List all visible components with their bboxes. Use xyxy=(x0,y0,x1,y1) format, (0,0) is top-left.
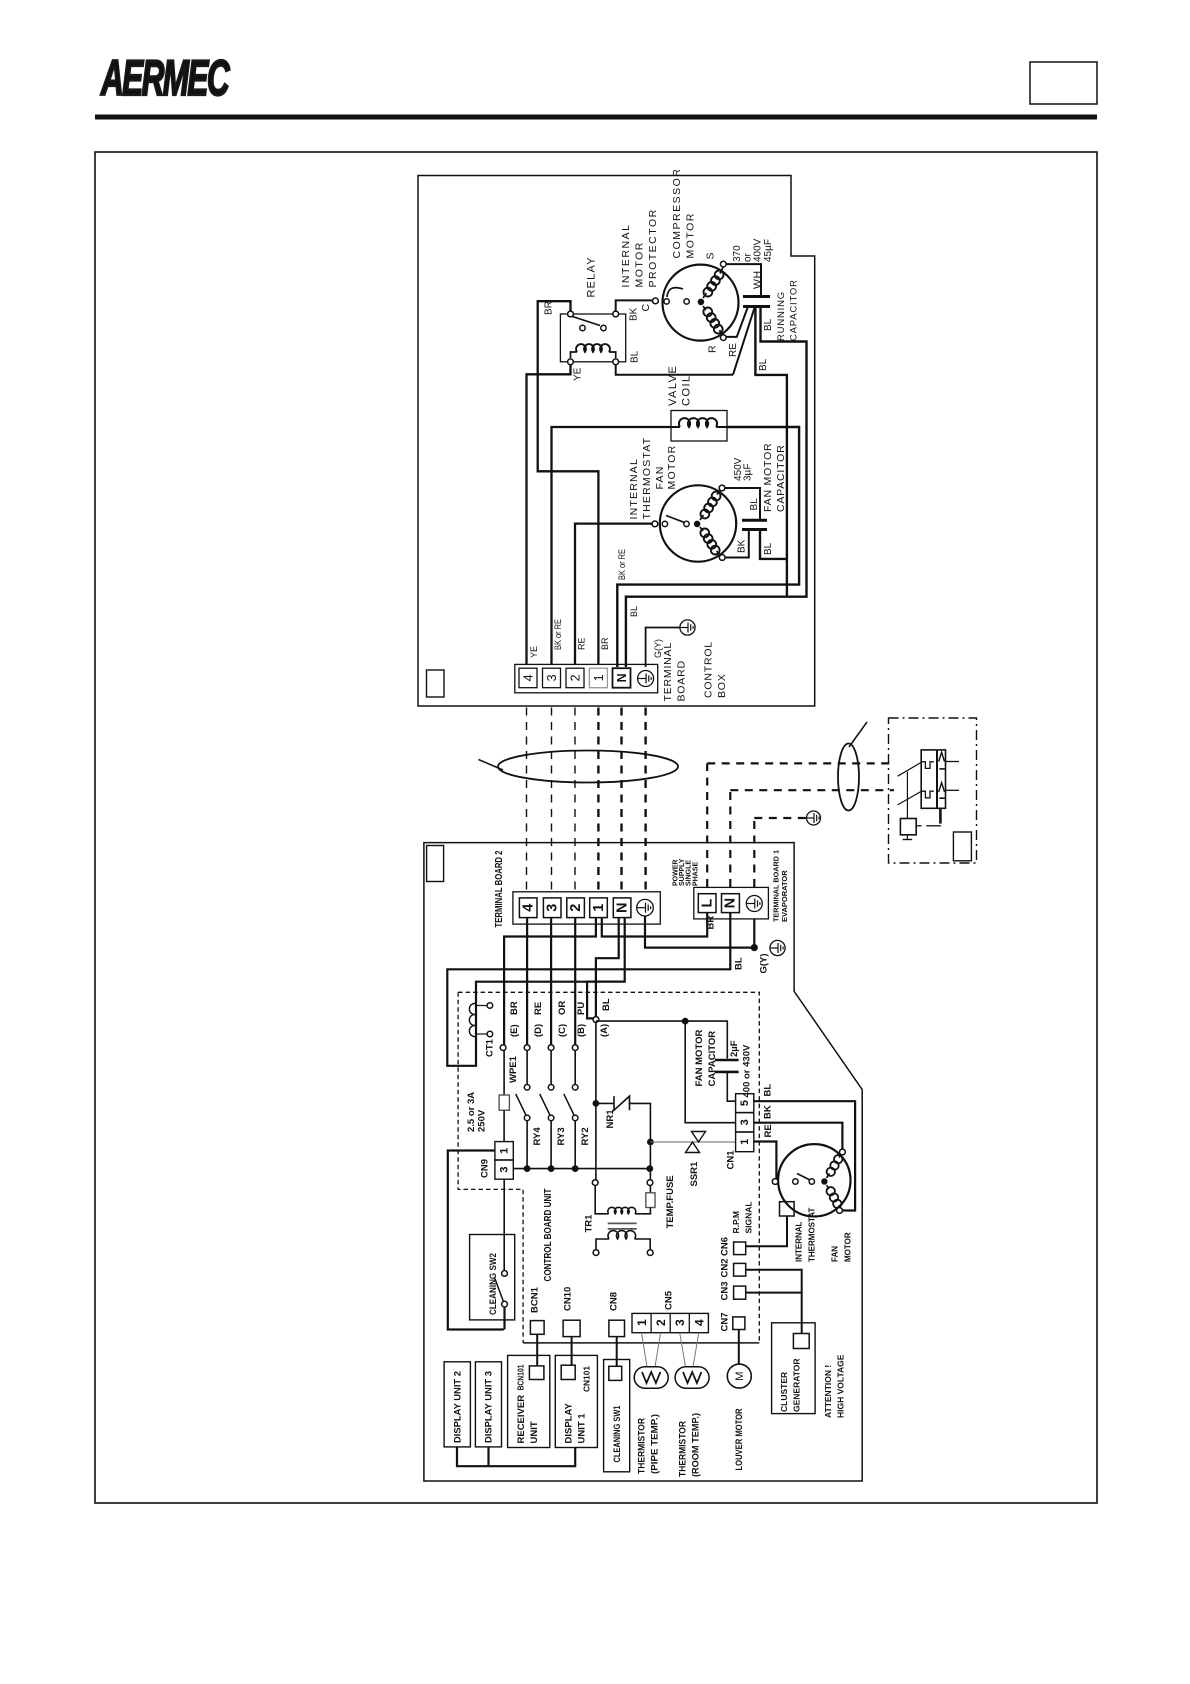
header rule xyxy=(95,115,1097,120)
wire fan top to cap xyxy=(722,488,760,520)
wire RE: terminal 2 to fan motor xyxy=(575,524,652,665)
svg-text:INTERNAL: INTERNAL xyxy=(620,224,632,288)
svg-text:BR: BR xyxy=(544,301,555,315)
svg-text:WH: WH xyxy=(752,270,764,289)
svg-text:BR: BR xyxy=(600,637,610,650)
svg-text:45µF: 45µF xyxy=(763,239,774,262)
svg-text:BL: BL xyxy=(758,358,769,371)
connector CN8 xyxy=(609,1320,625,1336)
current transformer CT1 xyxy=(469,1003,476,1036)
svg-text:1: 1 xyxy=(739,1139,751,1145)
display unit 2 xyxy=(444,1362,470,1447)
connector CN10 xyxy=(563,1320,580,1336)
node A vertical xyxy=(595,1022,597,1179)
svg-text:CAPACITOR: CAPACITOR xyxy=(775,445,787,513)
relay coil xyxy=(576,344,610,352)
svg-text:CN3: CN3 xyxy=(720,1281,731,1300)
fuse WPE1 xyxy=(503,1050,505,1095)
wire valve coil return (BL) xyxy=(617,427,799,667)
svg-text:3: 3 xyxy=(673,1319,687,1326)
svg-text:G(Y): G(Y) xyxy=(759,953,770,973)
svg-text:BL: BL xyxy=(601,998,612,1011)
wire BK: relay to compressor C xyxy=(616,300,653,311)
svg-text:DISPLAY UNIT 3: DISPLAY UNIT 3 xyxy=(484,1371,495,1443)
pin A xyxy=(593,1017,599,1023)
svg-text:DISPLAY UNIT 2: DISPLAY UNIT 2 xyxy=(453,1371,464,1443)
svg-text:CONTROL BOARD UNIT: CONTROL BOARD UNIT xyxy=(543,1189,554,1282)
svg-text:CN6: CN6 xyxy=(720,1237,731,1256)
thermistor (room temp) xyxy=(675,1367,709,1388)
svg-text:RY4: RY4 xyxy=(532,1127,543,1146)
display bus wires xyxy=(457,1447,575,1466)
svg-text:RUNNING: RUNNING xyxy=(776,291,787,341)
svg-text:PHASE: PHASE xyxy=(692,862,699,886)
svg-text:(C): (C) xyxy=(557,1024,568,1037)
outdoor legend box xyxy=(427,670,445,697)
svg-text:3: 3 xyxy=(545,904,561,912)
svg-text:RE: RE xyxy=(763,1124,774,1137)
control board unit dashed outline xyxy=(458,992,759,1343)
indoor legend box xyxy=(427,846,444,882)
svg-text:SIGNAL: SIGNAL xyxy=(744,1201,754,1233)
terminal board (outdoor) xyxy=(515,664,658,692)
svg-text:MOTOR: MOTOR xyxy=(844,1232,853,1262)
outdoor unit outline xyxy=(418,176,815,707)
svg-text:R.P.M: R.P.M xyxy=(731,1211,741,1234)
svg-text:CLEANING SW2: CLEANING SW2 xyxy=(488,1253,499,1315)
ground terminal (outdoor board) xyxy=(638,671,654,687)
transformer TR1 xyxy=(592,1180,598,1186)
svg-text:2.5 or 3A: 2.5 or 3A xyxy=(466,1092,477,1132)
svg-text:THERMISTOR: THERMISTOR xyxy=(678,1421,689,1477)
svg-text:INTERNAL: INTERNAL xyxy=(628,458,640,520)
svg-text:(B): (B) xyxy=(576,1024,587,1037)
thermistor wires xyxy=(642,1333,648,1367)
CN3 wire xyxy=(746,1292,802,1294)
wires TB2 4,3,2 down xyxy=(526,918,528,1045)
svg-text:250V: 250V xyxy=(477,1109,488,1132)
connector CN2 xyxy=(734,1263,746,1276)
svg-text:BCN101: BCN101 xyxy=(516,1364,526,1390)
svg-text:(A): (A) xyxy=(599,1024,610,1037)
svg-text:UNIT 1: UNIT 1 xyxy=(577,1413,588,1444)
svg-text:COIL: COIL xyxy=(681,374,693,406)
indoor fan motor xyxy=(778,1144,850,1216)
svg-text:RE: RE xyxy=(533,1002,544,1015)
small ellipse xyxy=(838,744,859,811)
svg-text:RE: RE xyxy=(728,343,739,357)
plug assembly dash-dot box xyxy=(889,718,977,863)
ground terminal TB2 xyxy=(637,899,654,916)
svg-text:BOARD: BOARD xyxy=(676,660,688,701)
svg-text:(PIPE TEMP.): (PIPE TEMP.) xyxy=(650,1414,661,1474)
wire N second path xyxy=(587,918,625,1019)
svg-text:CN2: CN2 xyxy=(720,1258,731,1277)
svg-text:LOUVER MOTOR: LOUVER MOTOR xyxy=(734,1408,745,1470)
wire N to (A) xyxy=(596,918,619,1017)
svg-text:CAPACITOR: CAPACITOR xyxy=(789,279,800,341)
svg-text:BR: BR xyxy=(706,916,717,930)
svg-text:1: 1 xyxy=(635,1319,649,1326)
connector CN7 xyxy=(733,1317,745,1330)
svg-text:RY3: RY3 xyxy=(556,1127,567,1145)
svg-text:CN9: CN9 xyxy=(480,1159,491,1178)
svg-text:GENERATOR: GENERATOR xyxy=(792,1358,802,1412)
power supply dashed lines xyxy=(706,763,708,887)
label box in plug area xyxy=(953,832,971,861)
connector CN3 xyxy=(734,1286,746,1299)
svg-text:4: 4 xyxy=(521,904,537,912)
svg-text:2: 2 xyxy=(568,904,584,912)
svg-text:CLEANING SW1: CLEANING SW1 xyxy=(612,1405,623,1463)
CN1 wires to fan xyxy=(754,1101,855,1210)
cleaning SW2 xyxy=(470,1235,515,1320)
svg-text:BOX: BOX xyxy=(716,673,728,698)
wire running-cap BL to N xyxy=(626,307,807,668)
svg-text:AERMEC: AERMEC xyxy=(100,50,230,106)
svg-text:CONTROL: CONTROL xyxy=(703,641,715,698)
svg-text:CN10: CN10 xyxy=(563,1287,574,1311)
cable ellipse xyxy=(498,751,678,783)
svg-text:FAN MOTOR: FAN MOTOR xyxy=(762,443,774,512)
svg-text:BK or RE: BK or RE xyxy=(617,549,627,580)
svg-text:R: R xyxy=(707,345,719,353)
compressor motor xyxy=(663,265,739,341)
connector BCN1 xyxy=(530,1321,544,1335)
svg-text:THERMISTOR: THERMISTOR xyxy=(637,1418,648,1474)
socket body xyxy=(921,750,945,808)
svg-text:(D): (D) xyxy=(533,1024,544,1037)
svg-text:400 or 430V: 400 or 430V xyxy=(742,1044,753,1097)
svg-text:CN5: CN5 xyxy=(664,1290,675,1310)
plug stem xyxy=(939,808,942,823)
svg-text:RECEIVER: RECEIVER xyxy=(516,1395,527,1444)
connector CN5 xyxy=(632,1313,708,1332)
wire YE: relay to terminal 4 xyxy=(527,365,571,665)
temp fuse xyxy=(649,1144,651,1166)
svg-text:RY2: RY2 xyxy=(580,1127,591,1145)
svg-text:VALVE: VALVE xyxy=(667,365,679,406)
display unit 3 xyxy=(475,1362,501,1447)
internal motor protector arc xyxy=(667,288,683,297)
svg-text:ATTENTION !: ATTENTION ! xyxy=(823,1365,833,1418)
SSR1 triac xyxy=(650,1141,735,1143)
indoor unit outline xyxy=(424,843,862,1481)
svg-text:TERMINAL: TERMINAL xyxy=(662,642,674,702)
svg-text:THERMOSTAT: THERMOSTAT xyxy=(641,437,653,520)
svg-text:N: N xyxy=(615,902,631,912)
CN2 wire to cluster xyxy=(746,1270,802,1334)
thermistor (pipe temp) xyxy=(634,1367,668,1388)
relays RY4 RY3 RY2 xyxy=(526,1050,528,1084)
svg-text:WPE1: WPE1 xyxy=(508,1055,519,1083)
svg-text:3: 3 xyxy=(739,1119,751,1125)
svg-text:PROTECTOR: PROTECTOR xyxy=(647,208,659,287)
svg-text:C: C xyxy=(640,304,652,312)
adapter square xyxy=(900,819,916,835)
svg-text:2: 2 xyxy=(654,1319,668,1326)
svg-text:(ROOM TEMP.): (ROOM TEMP.) xyxy=(691,1413,702,1477)
svg-text:UNIT: UNIT xyxy=(529,1421,540,1443)
fan motor capacitor (outdoor) xyxy=(742,519,767,522)
wire fan-cap to BL xyxy=(760,530,787,559)
wire A to fan capacitor xyxy=(596,1021,727,1058)
CN9 wire loop xyxy=(448,1151,504,1330)
svg-text:CAPACITOR: CAPACITOR xyxy=(707,1031,718,1087)
svg-text:BL: BL xyxy=(763,1084,774,1097)
svg-text:3: 3 xyxy=(545,674,559,681)
outdoor fan motor xyxy=(660,485,736,561)
svg-text:3: 3 xyxy=(498,1167,510,1173)
svg-text:SSR1: SSR1 xyxy=(689,1161,700,1187)
svg-text:FAN: FAN xyxy=(831,1246,840,1262)
svg-text:CN8: CN8 xyxy=(609,1292,620,1311)
svg-text:CN1: CN1 xyxy=(726,1150,737,1170)
svg-text:TERMINAL BOARD 2: TERMINAL BOARD 2 xyxy=(494,850,505,927)
bus CN9-3 to TR1 xyxy=(514,1168,650,1170)
svg-text:BL: BL xyxy=(629,606,639,617)
svg-text:FAN MOTOR: FAN MOTOR xyxy=(694,1030,705,1087)
svg-text:YE: YE xyxy=(573,367,584,381)
control box ground xyxy=(646,628,680,668)
svg-text:1: 1 xyxy=(592,674,606,681)
compressor windings xyxy=(704,288,713,297)
svg-text:BL: BL xyxy=(734,957,745,970)
wire BL: relay to node xyxy=(616,365,733,375)
display unit 1 xyxy=(555,1355,597,1447)
svg-text:PU: PU xyxy=(576,1002,587,1015)
svg-text:MOTOR: MOTOR xyxy=(685,212,697,258)
socket notches xyxy=(921,762,934,769)
cleaning SW1 xyxy=(604,1360,630,1472)
svg-text:BL: BL xyxy=(630,350,641,363)
varistor NR1 xyxy=(596,1102,614,1104)
wire S to running capacitor xyxy=(723,264,761,296)
top-right box xyxy=(1030,62,1097,104)
terminal board 2 xyxy=(513,892,660,924)
svg-text:COMPRESSOR: COMPRESSOR xyxy=(671,168,683,259)
wire BKorRE: terminal 3 to valve coil xyxy=(552,427,672,664)
relay RY box xyxy=(560,314,625,362)
svg-text:2µF: 2µF xyxy=(729,1040,740,1057)
wire running-cap BL main xyxy=(755,307,787,597)
svg-text:CLUSTER: CLUSTER xyxy=(779,1372,789,1412)
svg-text:N: N xyxy=(615,673,629,682)
wire BR: relay to terminal 1 xyxy=(538,301,599,664)
svg-text:OR: OR xyxy=(557,1001,568,1015)
svg-text:1: 1 xyxy=(591,904,607,912)
valve coil xyxy=(671,411,727,442)
svg-text:HIGH VOLTAGE: HIGH VOLTAGE xyxy=(836,1354,846,1418)
pins E D C B xyxy=(500,1045,506,1051)
svg-text:YE: YE xyxy=(529,646,539,658)
connector CN9 xyxy=(495,1142,513,1160)
wire power N through CT1 xyxy=(447,913,730,1066)
connector CN1 xyxy=(736,1094,754,1113)
svg-text:BR: BR xyxy=(509,1001,520,1015)
svg-text:MOTOR: MOTOR xyxy=(666,445,678,490)
svg-text:1: 1 xyxy=(498,1148,510,1154)
svg-text:BK or RE: BK or RE xyxy=(553,619,563,650)
page frame xyxy=(95,152,1097,1503)
svg-text:INTERNAL: INTERNAL xyxy=(795,1221,804,1262)
connector CN6 xyxy=(734,1242,746,1255)
plug prongs xyxy=(939,752,945,761)
svg-text:MOTOR: MOTOR xyxy=(634,241,646,287)
terminal board 1 (power) xyxy=(694,887,769,919)
ground junction G(Y) xyxy=(645,916,754,948)
RPM signal connector xyxy=(780,1202,795,1216)
svg-text:BL: BL xyxy=(763,318,774,331)
svg-text:M: M xyxy=(734,1372,746,1381)
svg-text:BL: BL xyxy=(749,498,760,511)
wire to CN1-3 xyxy=(685,1021,735,1123)
svg-text:TR1: TR1 xyxy=(584,1214,595,1233)
svg-text:RE: RE xyxy=(577,637,587,650)
svg-text:BK: BK xyxy=(629,307,640,321)
wire fan bottom to cap xyxy=(722,530,749,558)
interconnect dashed cables xyxy=(526,708,528,892)
svg-text:CN101: CN101 xyxy=(582,1366,592,1392)
svg-text:THERMOSTAT: THERMOSTAT xyxy=(808,1208,817,1262)
svg-text:3µF: 3µF xyxy=(743,464,754,481)
earth symbol (supply) xyxy=(807,811,821,825)
svg-text:CN7: CN7 xyxy=(720,1312,731,1331)
svg-text:CT1: CT1 xyxy=(485,1038,496,1057)
cluster generator xyxy=(772,1323,816,1414)
diagonal node to cap xyxy=(733,307,755,375)
louver motor xyxy=(738,1330,740,1365)
fan motor capacitor (indoor) xyxy=(715,1059,739,1062)
svg-text:DISPLAY: DISPLAY xyxy=(564,1403,575,1444)
svg-text:BK: BK xyxy=(737,539,748,553)
svg-text:5: 5 xyxy=(739,1100,751,1106)
receiver unit xyxy=(508,1355,550,1447)
wire L to TB2-1 (BR) xyxy=(602,913,707,937)
svg-text:NR1: NR1 xyxy=(605,1109,616,1129)
svg-text:(E): (E) xyxy=(509,1024,520,1037)
svg-text:RELAY: RELAY xyxy=(586,256,598,297)
svg-text:BK: BK xyxy=(763,1105,774,1119)
svg-text:BL: BL xyxy=(763,542,774,555)
wire R diagonal xyxy=(723,307,748,337)
svg-text:TEMP.FUSE: TEMP.FUSE xyxy=(665,1175,676,1228)
relay switch xyxy=(580,325,585,330)
svg-text:FAN: FAN xyxy=(654,465,666,489)
plug cords xyxy=(898,762,922,776)
svg-text:S: S xyxy=(705,252,717,259)
svg-text:G(Y): G(Y) xyxy=(653,639,663,658)
svg-text:N: N xyxy=(723,898,739,908)
svg-text:BCN1: BCN1 xyxy=(530,1286,541,1313)
svg-text:4: 4 xyxy=(692,1319,706,1326)
svg-text:2: 2 xyxy=(569,674,583,681)
svg-text:EVAPORATOR: EVAPORATOR xyxy=(780,870,789,922)
running capacitor xyxy=(743,295,770,298)
svg-text:4: 4 xyxy=(522,674,536,681)
svg-text:L: L xyxy=(699,899,715,908)
